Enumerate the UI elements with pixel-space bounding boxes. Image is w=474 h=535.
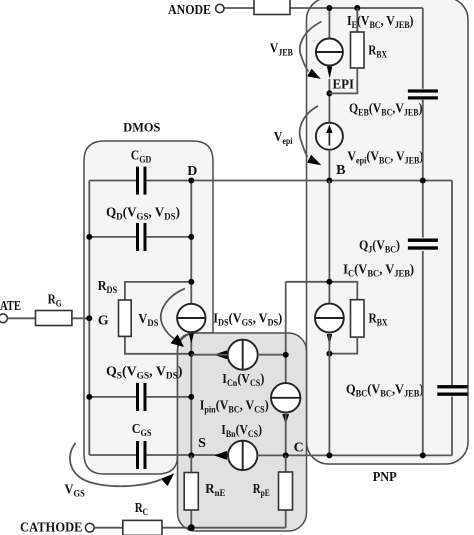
node at (329.4,281.8)	[326, 279, 332, 285]
GATE terminal	[0, 314, 7, 323]
capacitor Q_J	[408, 239, 438, 250]
resistor R_BX (upper)	[351, 32, 365, 68]
node at (89.3,396.9)	[86, 394, 92, 400]
current source I_C	[315, 304, 344, 333]
node at (422.8,180.5)	[420, 178, 426, 184]
wire: R_DS bottom jog	[125, 336, 191, 353]
node at (191.3,353.8)	[188, 351, 194, 357]
wire: I_C left jog down to inner cell	[285, 282, 287, 383]
CATHODE terminal	[85, 523, 94, 532]
wire: S down to R_nE and bottom	[190, 455, 192, 472]
arrow of I_C (down)	[327, 334, 332, 346]
current source V_epi	[316, 123, 343, 150]
node C	[283, 452, 289, 458]
current source I_DS	[177, 304, 205, 332]
node S	[188, 452, 194, 458]
PNP container box	[307, 0, 469, 464]
wire: B down to I_C row	[328, 181, 330, 304]
resistor R_DS	[119, 300, 132, 336]
node at (285.7,354.7)	[283, 352, 289, 358]
capacitor Q_S	[136, 383, 147, 411]
wire: V_epi to B	[328, 150, 330, 181]
svg-text:ANODE: ANODE	[168, 3, 211, 18]
capacitor C_GS	[136, 441, 147, 469]
svg-text:S: S	[198, 436, 206, 451]
V_DS feedback arc	[161, 289, 185, 339]
wire: C down to R_pE	[285, 455, 287, 472]
anode series resistor (top, cropped)	[254, 0, 290, 15]
node at (89.3,236.9)	[86, 234, 92, 240]
svg-text:B: B	[336, 163, 345, 178]
svg-text:DMOS: DMOS	[123, 119, 160, 134]
V_epi arc	[300, 106, 318, 157]
node at (357.3,8)	[354, 5, 360, 11]
resistor R_pE	[279, 472, 293, 510]
svg-text:CATHODE: CATHODE	[20, 521, 83, 535]
wire: top anode rail y=8	[224, 7, 423, 9]
wire: R_BX1 bottom jog to EPI	[329, 68, 357, 93]
arrowhead of V_JEB arc	[307, 69, 321, 79]
wire: gate row	[7, 317, 35, 319]
svg-text:PNP: PNP	[373, 470, 397, 485]
wire: R_BX2 bottom jog	[329, 337, 357, 354]
wire: I_Cn row	[191, 354, 227, 356]
DMOS container box	[84, 141, 213, 474]
capacitor Q_EB	[408, 89, 438, 99]
wire: main D-S column x=191.3	[190, 181, 192, 304]
node at (191.3,281.9)	[188, 279, 194, 285]
arrow below V_JEB source (down)	[327, 67, 332, 79]
capacitor Q_BC	[437, 385, 467, 396]
V_JEB arc	[300, 22, 322, 72]
PNP main column: top segment	[328, 8, 330, 39]
node at (329.4,353.6)	[326, 351, 332, 357]
resistor R_G	[36, 311, 72, 326]
wire: I_C left jog	[286, 281, 330, 283]
arrowhead of V_GS arc	[161, 473, 174, 486]
node D	[188, 178, 194, 184]
arrow of I_pin (down)	[282, 414, 289, 424]
wire: C_GS / S row y=455	[89, 454, 136, 456]
arrowhead of V_epi arc	[307, 155, 321, 166]
node at (329.4,455.4)	[326, 452, 332, 458]
wire: D-B row y=180.5	[89, 180, 136, 182]
arrow of I_DS (down)	[189, 334, 194, 344]
node G	[86, 315, 92, 321]
node at (191.3,236.9)	[188, 234, 194, 240]
node at (422.8,455.4)	[420, 452, 426, 458]
node B	[326, 178, 332, 184]
capacitor Q_D	[136, 223, 147, 251]
current source I_Cn	[228, 340, 258, 370]
node EPI	[326, 90, 332, 96]
wire: right cap branch x=422.8 (line A)	[422, 8, 424, 89]
wire: below I_pin to node C	[285, 413, 287, 456]
resistor R_nE	[184, 473, 198, 511]
capacitor C_GD	[136, 167, 147, 195]
node at (329.4,8)	[326, 5, 332, 11]
resistor R_C	[123, 520, 162, 535]
inner cell container box (shaded)	[178, 333, 307, 531]
wire: DMOS left column x=89.3	[88, 181, 90, 456]
arrowhead of V_DS arc	[171, 334, 185, 347]
arrow of I_Cn (left)	[214, 350, 227, 359]
node at (191.3,527.7)	[188, 524, 195, 531]
wire: I_C node down to bottom row	[328, 332, 330, 455]
svg-text:D: D	[187, 164, 197, 179]
wire: QD row y=236.9	[89, 236, 136, 238]
wire: R_DS top jog	[125, 282, 191, 300]
wire: R_BX1 top	[356, 8, 358, 32]
arrow of I_Bn (left)	[214, 451, 227, 460]
wire: right outer branch x=452 (line B)	[451, 181, 453, 386]
current source V_JEB (I_E source)	[316, 39, 343, 66]
svg-text:G: G	[98, 314, 109, 329]
wire: into EPI node	[328, 79, 330, 123]
wire: S-C row segments	[257, 454, 452, 456]
wire: bottom cathode row	[94, 527, 123, 529]
resistor R_BX (lower)	[351, 300, 365, 337]
svg-text:ATE: ATE	[0, 299, 21, 314]
current source I_Bn	[228, 441, 257, 470]
wire: I_C right jog to R_BX2	[329, 282, 357, 300]
V_GS feedback arc	[70, 443, 161, 486]
svg-text:EPI: EPI	[333, 78, 355, 93]
current source I_pin	[271, 383, 300, 412]
svg-text:C: C	[294, 441, 304, 456]
ANODE terminal	[216, 4, 224, 12]
wire: Q_S row y=396.9	[89, 396, 136, 398]
node at (191.3,396.9)	[188, 394, 194, 400]
